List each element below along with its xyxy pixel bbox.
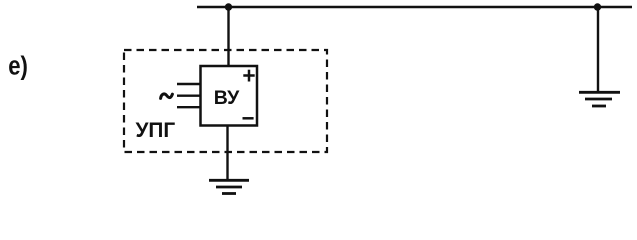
svg-text:е): е) (8, 52, 28, 81)
svg-text:ВУ: ВУ (214, 87, 240, 109)
svg-text:УПГ: УПГ (136, 119, 176, 142)
